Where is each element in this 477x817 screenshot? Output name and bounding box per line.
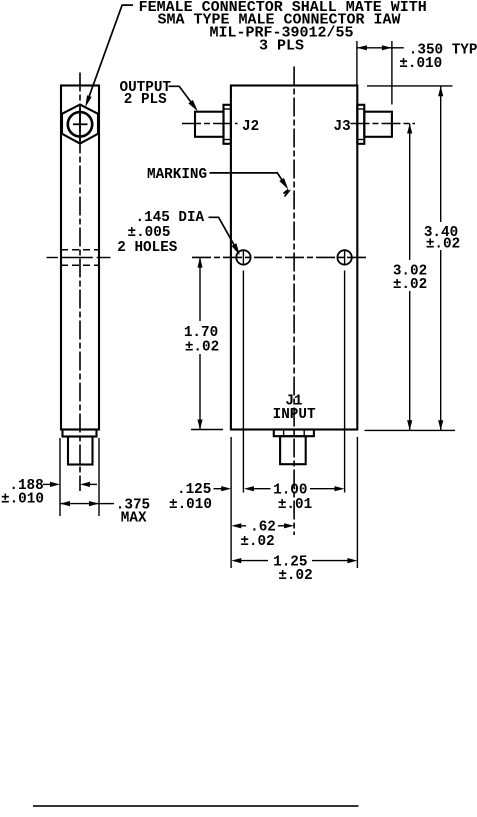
svg-text:±.02: ±.02 xyxy=(240,534,274,550)
left view vertical centerline xyxy=(79,73,81,492)
J2 flange facets xyxy=(224,109,231,140)
J1 barrel xyxy=(280,436,306,464)
svg-text:.125: .125 xyxy=(177,482,211,498)
svg-text:J2: J2 xyxy=(242,119,259,135)
svg-text:1.70: 1.70 xyxy=(184,325,218,341)
leader .145 to hole xyxy=(209,217,240,255)
front view body xyxy=(231,86,357,430)
dimension .125 xyxy=(169,482,231,513)
svg-text:MAX: MAX xyxy=(121,511,147,527)
dimension .62 xyxy=(231,520,294,551)
note text top block xyxy=(139,0,427,55)
bottom rule line xyxy=(33,805,359,807)
svg-text:.145 DIA: .145 DIA xyxy=(136,210,205,226)
hidden hole lines left view xyxy=(61,250,99,265)
front view vertical centerline xyxy=(293,67,295,536)
bottom left extension line for 1.70 xyxy=(191,429,223,431)
left view body xyxy=(61,86,99,430)
label J1 INPUT xyxy=(273,394,316,423)
left view bottom barrel xyxy=(68,437,93,465)
J3 flange facets xyxy=(357,109,364,140)
J2 centerline xyxy=(182,123,238,125)
svg-text:±.010: ±.010 xyxy=(399,56,442,72)
J3 centerline xyxy=(351,123,416,125)
dimension 1.25 xyxy=(231,554,357,584)
svg-text:.62: .62 xyxy=(250,520,276,536)
svg-text:2 PLS: 2 PLS xyxy=(124,92,167,108)
dimension 3.02 xyxy=(393,124,427,431)
label .145 DIA xyxy=(117,210,204,256)
svg-text:J3: J3 xyxy=(334,119,351,135)
svg-text:±.010: ±.010 xyxy=(169,497,212,513)
connector J3 flange xyxy=(357,105,364,144)
J1 flange xyxy=(274,430,314,437)
svg-text:±.02: ±.02 xyxy=(393,277,427,293)
svg-text:2 HOLES: 2 HOLES xyxy=(117,240,177,256)
dimension .350 TYP xyxy=(357,43,477,72)
leader MARKING xyxy=(210,173,289,197)
dimension .375 MAX xyxy=(60,497,150,526)
connector J2 flange xyxy=(224,105,231,144)
hex nut circle xyxy=(68,112,92,136)
dimension .188 xyxy=(1,478,97,507)
leader OUTPUT to J2 barrel xyxy=(169,86,198,111)
J1 flange facets xyxy=(284,430,305,437)
svg-text:±.02: ±.02 xyxy=(278,568,312,584)
svg-text:±.010: ±.010 xyxy=(1,491,44,507)
body bottom extension lines xyxy=(231,437,357,568)
leader from note to hex nut xyxy=(85,5,133,107)
bottom right extension line xyxy=(365,429,456,431)
svg-text:±.005: ±.005 xyxy=(128,225,171,241)
svg-text:±.02: ±.02 xyxy=(426,236,460,252)
svg-text:±.02: ±.02 xyxy=(185,340,219,356)
OUTPUT label xyxy=(120,80,172,108)
left view extension lines xyxy=(60,438,99,516)
left view hole centerline xyxy=(47,257,58,259)
dimension 1.70 xyxy=(184,258,219,430)
svg-text:±.01: ±.01 xyxy=(278,497,312,513)
hex nut cross lines xyxy=(73,123,88,125)
hex nut xyxy=(62,105,98,144)
top extension lines for .350 xyxy=(357,41,392,105)
mounting hole right xyxy=(337,250,351,265)
dimension 3.40 xyxy=(424,86,460,430)
svg-text:MARKING: MARKING xyxy=(147,167,207,183)
hole extension lines down xyxy=(243,271,344,493)
left view bottom flange xyxy=(63,430,97,437)
svg-text:3 PLS: 3 PLS xyxy=(259,38,304,55)
front view hole centerline xyxy=(192,256,366,258)
dimension 1.00 xyxy=(244,482,345,512)
connector J3 barrel xyxy=(364,112,392,137)
svg-text:INPUT: INPUT xyxy=(273,407,316,423)
connector J2 barrel xyxy=(195,112,224,137)
top right extension line xyxy=(367,85,453,87)
mounting hole left xyxy=(236,250,250,265)
